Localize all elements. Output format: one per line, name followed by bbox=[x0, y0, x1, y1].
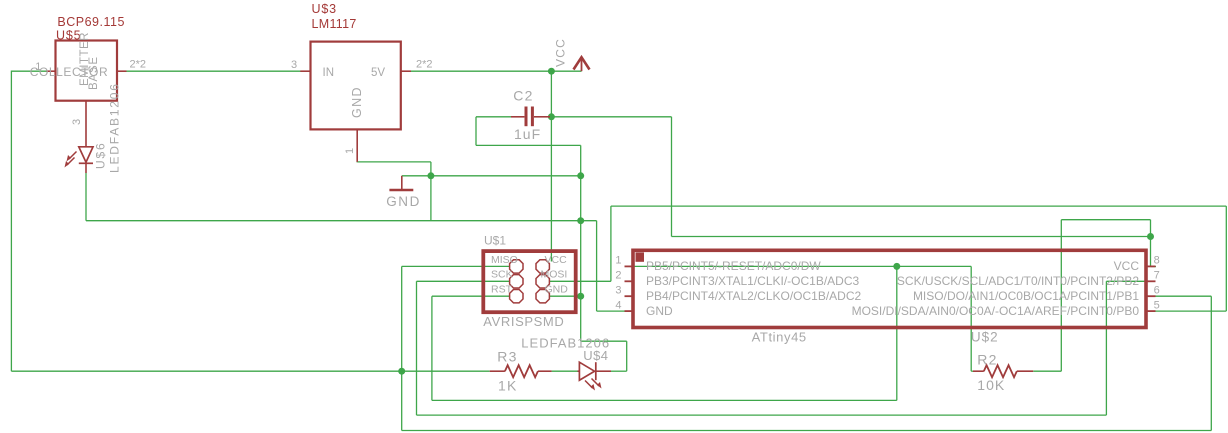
svg-text:2*2: 2*2 bbox=[416, 59, 433, 71]
wire pin 6 east bbox=[1155, 295, 1211, 297]
wire GND pad to column bbox=[550, 295, 581, 297]
wire pin 6 column down bbox=[1210, 296, 1212, 430]
svg-text:3: 3 bbox=[71, 119, 83, 125]
wire LM1117 GND corner bbox=[356, 161, 359, 163]
svg-text:AVRISPSMD: AVRISPSMD bbox=[483, 314, 564, 329]
svg-text:U$2: U$2 bbox=[971, 330, 999, 345]
wire LED U$6 cathode down bbox=[85, 173, 87, 221]
svg-text:U$1: U$1 bbox=[484, 234, 506, 248]
wire LM1117 GND to ground node bbox=[357, 161, 431, 163]
svg-text:GND: GND bbox=[350, 86, 364, 118]
resistor R3 bbox=[490, 370, 505, 372]
resistor R2 bbox=[973, 370, 984, 372]
junction RESET node bbox=[893, 263, 900, 270]
svg-text:10K: 10K bbox=[977, 377, 1005, 393]
svg-text:MOSI: MOSI bbox=[541, 269, 568, 281]
wire ground node vertical bbox=[430, 162, 432, 221]
svg-text:5V: 5V bbox=[371, 67, 385, 79]
pin 1 stub U$5 bbox=[46, 70, 55, 72]
wire branch to ATtiny GND pin bbox=[581, 220, 597, 222]
wire collector to left rail bbox=[11, 70, 46, 72]
wire R2 right lead to column bbox=[1033, 370, 1061, 372]
wire into pin 5 bbox=[1155, 310, 1226, 312]
wire R2 left column bbox=[970, 266, 972, 371]
wire SCK rail up to pin 7 bbox=[1105, 281, 1107, 415]
wire corner into R2 lead bbox=[971, 370, 974, 372]
IC ATtiny45 corner mark bbox=[636, 252, 645, 261]
ground symbol bbox=[401, 176, 403, 190]
pin 3 stub U$3 bbox=[300, 70, 310, 72]
wire RST rail vertical bbox=[431, 296, 433, 400]
wire RESET node to R2 left column bbox=[897, 265, 971, 267]
svg-text:VCC: VCC bbox=[554, 38, 568, 67]
svg-text:MISO/DO/AIN1/OC0B/OC1A/PCINT1/: MISO/DO/AIN1/OC0B/OC1A/PCINT1/PB1 bbox=[913, 289, 1139, 303]
svg-text:4: 4 bbox=[615, 299, 621, 311]
pin 8 stub ATtiny45 bbox=[1145, 265, 1156, 267]
wire left rail vertical bbox=[10, 71, 12, 372]
LED U$4 bbox=[578, 370, 580, 372]
wire node to R3 left bbox=[402, 370, 490, 372]
pin 1 stub U$3 bbox=[356, 129, 358, 162]
wire LM1117 5V to VCC bbox=[411, 70, 582, 72]
regulator U$3 body bbox=[311, 42, 401, 130]
svg-text:3: 3 bbox=[291, 59, 297, 71]
wire RESET column up bbox=[896, 266, 898, 400]
junction GND column at AVRISP pad bbox=[577, 293, 584, 300]
svg-text:ATtiny45: ATtiny45 bbox=[752, 330, 807, 345]
svg-text:RST: RST bbox=[491, 283, 513, 295]
wire VCC long horizontal to pin8 node bbox=[672, 236, 1151, 238]
svg-text:1: 1 bbox=[615, 255, 621, 267]
svg-text:1: 1 bbox=[344, 148, 356, 154]
wire transistor emitter to LM1117 IN bbox=[126, 70, 301, 72]
wire GND column bbox=[580, 145, 582, 341]
wire pin 7 over box bbox=[1106, 280, 1153, 282]
IC ATtiny45 body bbox=[633, 250, 1146, 327]
svg-text:R2: R2 bbox=[977, 352, 997, 368]
pin 7 stub ATtiny45 bbox=[1145, 280, 1156, 282]
svg-text:PB5/PCINT5/-RESET/ADC0/DW: PB5/PCINT5/-RESET/ADC0/DW bbox=[646, 259, 821, 273]
wire LED U$4 cathode east bbox=[611, 370, 627, 372]
svg-text:C2: C2 bbox=[513, 88, 533, 104]
svg-text:GND: GND bbox=[646, 304, 673, 318]
svg-text:MISO: MISO bbox=[491, 254, 518, 266]
wire RST row to pad bbox=[432, 295, 510, 297]
wire SCK row to pad bbox=[417, 280, 510, 282]
wire C2-left jog vertical bbox=[475, 117, 477, 146]
wire MOSI column up bbox=[610, 206, 612, 281]
pin 2 stub ATtiny45 bbox=[625, 280, 635, 282]
connector U$1 body bbox=[483, 251, 575, 312]
svg-text:8: 8 bbox=[1154, 255, 1160, 267]
pin 1 stub ATtiny45 bbox=[625, 265, 635, 267]
pad SCK bbox=[510, 275, 523, 288]
pin 5 stub ATtiny45 bbox=[1145, 310, 1156, 312]
svg-text:U$5: U$5 bbox=[56, 29, 81, 43]
junction ground node bbox=[427, 172, 434, 179]
wire VCC column down to AVRISP VCC pad bbox=[550, 71, 552, 261]
svg-text:IN: IN bbox=[323, 67, 335, 79]
wire MOSI pad to column bbox=[550, 280, 611, 282]
wire down to pin 8 bbox=[1150, 220, 1152, 267]
svg-text:U$6: U$6 bbox=[94, 142, 108, 169]
pad GND bbox=[536, 290, 549, 303]
pad MISO bbox=[510, 260, 523, 273]
svg-text:2*2: 2*2 bbox=[130, 59, 147, 71]
wire LED jog horizontal bbox=[581, 340, 627, 342]
svg-text:SCK: SCK bbox=[491, 269, 513, 281]
junction VCC top bbox=[548, 68, 555, 75]
wire to C2 left bbox=[476, 116, 511, 118]
svg-text:GND: GND bbox=[545, 283, 569, 295]
svg-text:R3: R3 bbox=[497, 349, 517, 365]
svg-text:1uF: 1uF bbox=[514, 126, 541, 142]
wire C2 right to VCC node bbox=[548, 116, 551, 118]
capacitor C2 bbox=[525, 107, 528, 127]
svg-text:7: 7 bbox=[1154, 270, 1160, 282]
VCC supply symbol bbox=[581, 58, 583, 71]
wire bottom-left rail to node bbox=[11, 370, 401, 372]
pad RST bbox=[510, 290, 523, 303]
wire SCK bottom rail bbox=[417, 414, 1107, 416]
svg-text:MOSI/DI/SDA/AIN0/OC0A/-OC1A/AR: MOSI/DI/SDA/AIN0/OC0A/-OC1A/AREF/PCINT0/… bbox=[852, 304, 1140, 318]
junction GND column mid bbox=[577, 217, 584, 224]
wire into pin 8 stub bbox=[1151, 266, 1157, 268]
wire GND branch vertical bbox=[596, 221, 598, 311]
junction VCC at pin 8 bbox=[1147, 233, 1154, 240]
svg-text:U$3: U$3 bbox=[312, 2, 337, 16]
svg-text:BASE: BASE bbox=[88, 56, 100, 90]
svg-text:VCC: VCC bbox=[545, 254, 568, 266]
LED U$6 arrows bbox=[69, 152, 77, 160]
pin 3 stub U$5 to LED bbox=[85, 101, 87, 147]
svg-text:LEDFAB1206: LEDFAB1206 bbox=[108, 82, 122, 173]
wire MOSI long top rail bbox=[611, 205, 1226, 207]
wire RESET bottom rail bbox=[432, 399, 897, 401]
wire R2 top jog horizontal bbox=[1061, 219, 1150, 221]
pin stub U$3 output bbox=[401, 70, 411, 72]
junction left rail / R3 bbox=[398, 368, 405, 375]
svg-text:PB3/PCINT3/XTAL1/CLKI/-OC1B/AD: PB3/PCINT3/XTAL1/CLKI/-OC1B/ADC3 bbox=[646, 274, 860, 288]
junction GND column top bbox=[577, 172, 584, 179]
wire ground row horizontal bbox=[402, 175, 581, 177]
pad VCC bbox=[536, 260, 549, 273]
wire MOSI right column down bbox=[1225, 206, 1227, 311]
wire MISO bottom rail bbox=[402, 430, 1212, 432]
svg-text:GND: GND bbox=[386, 194, 421, 209]
pin 4 stub ATtiny45 bbox=[625, 310, 635, 312]
transistor U$5 body bbox=[56, 41, 118, 101]
LED U$6 bbox=[79, 147, 93, 162]
wire C2-left jog horizontal bbox=[476, 144, 581, 146]
wire VCC jog vertical bbox=[671, 117, 673, 237]
svg-text:SCK/USCK/SCL/ADC1/T0/INT0/PCIN: SCK/USCK/SCL/ADC1/T0/INT0/PCINT2/PB2 bbox=[897, 274, 1139, 288]
wire SCK rail vertical bbox=[416, 281, 418, 415]
svg-text:2: 2 bbox=[615, 270, 621, 282]
svg-text:3: 3 bbox=[615, 285, 621, 297]
LED U$4 arrows bbox=[585, 381, 593, 389]
junction C2/VCC bbox=[548, 113, 555, 120]
pin 3 stub ATtiny45 bbox=[625, 295, 635, 297]
wire MISO rail vertical bbox=[401, 266, 403, 430]
svg-text:LM1117: LM1117 bbox=[312, 17, 357, 31]
svg-text:6: 6 bbox=[1154, 285, 1160, 297]
wire into ATtiny pin 4 bbox=[597, 310, 626, 312]
pad MOSI bbox=[536, 275, 549, 288]
pin 2 stub U$5 bbox=[117, 70, 127, 72]
wire pin 1 over box bbox=[626, 265, 897, 267]
svg-text:LEDFAB1206: LEDFAB1206 bbox=[521, 336, 610, 351]
svg-text:5: 5 bbox=[1154, 299, 1160, 311]
svg-text:BCP69.115: BCP69.115 bbox=[57, 15, 125, 29]
wire GND row to column bbox=[86, 220, 581, 222]
svg-text:PB4/PCINT4/XTAL2/CLKO/OC1B/ADC: PB4/PCINT4/XTAL2/CLKO/OC1B/ADC2 bbox=[646, 289, 862, 303]
pin 6 stub ATtiny45 bbox=[1145, 295, 1156, 297]
wire R3 to LED U$4 bbox=[552, 370, 578, 372]
svg-text:VCC: VCC bbox=[1114, 259, 1140, 273]
svg-text:1K: 1K bbox=[498, 378, 518, 394]
wire LED jog vertical bbox=[626, 341, 628, 371]
wire VCC node to east jog bbox=[551, 116, 671, 118]
wire MISO row to pad bbox=[402, 265, 510, 267]
wire R2 right column bbox=[1060, 220, 1062, 372]
